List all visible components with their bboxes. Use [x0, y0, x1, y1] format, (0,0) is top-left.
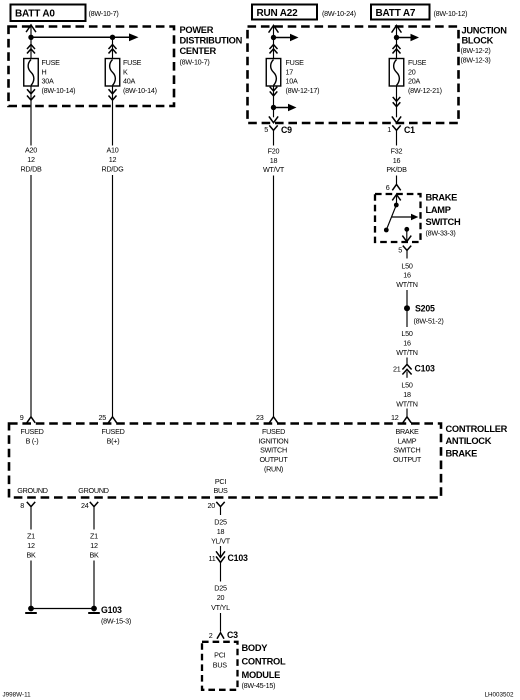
svg-text:C3: C3 — [227, 630, 238, 640]
svg-text:20: 20 — [208, 501, 216, 510]
svg-text:WT/TN: WT/TN — [396, 399, 418, 408]
brake lamp switch dashed box — [375, 194, 421, 242]
fuse 17 value labels — [286, 58, 320, 95]
wire label D25 18 YL/VT — [211, 518, 231, 546]
svg-text:12: 12 — [90, 541, 98, 550]
svg-text:12: 12 — [109, 155, 117, 164]
pin 9 label FUSED B(-) — [20, 427, 43, 445]
connector chevrons above fuse 20 — [393, 45, 400, 53]
node junction dot at fuse H feed — [28, 35, 33, 40]
connector pin 9 at CAB — [20, 413, 35, 423]
component box RUN A22 — [252, 5, 317, 20]
svg-text:(8W-51-2): (8W-51-2) — [414, 317, 444, 326]
svg-text:Z1: Z1 — [90, 532, 98, 541]
svg-text:L50: L50 — [401, 261, 412, 270]
svg-text:18: 18 — [403, 390, 411, 399]
svg-text:6: 6 — [386, 183, 390, 192]
svg-text:5: 5 — [398, 246, 402, 255]
junction block dashed box — [248, 27, 459, 124]
svg-text:D25: D25 — [214, 518, 227, 527]
svg-text:C1: C1 — [404, 125, 415, 135]
svg-text:PCI: PCI — [214, 650, 225, 659]
wire branch arrow right of fuse 17 feed — [274, 34, 299, 41]
svg-text:(8W-12-3): (8W-12-3) — [461, 56, 491, 65]
svg-text:(8W-12-17): (8W-12-17) — [286, 86, 320, 95]
ground G103 label — [101, 605, 131, 626]
switch contact node (top) — [394, 203, 399, 208]
svg-text:1: 1 — [387, 125, 391, 134]
svg-text:CENTER: CENTER — [180, 46, 217, 56]
svg-text:12: 12 — [27, 155, 35, 164]
fuse H — [24, 59, 39, 87]
svg-text:BODY: BODY — [242, 643, 269, 653]
svg-text:BK: BK — [89, 551, 99, 560]
svg-text:LAMP: LAMP — [398, 436, 417, 445]
wire L50 to splice S205 — [406, 290, 408, 308]
power distribution center dashed box — [9, 27, 175, 107]
svg-text:(8W-10-14): (8W-10-14) — [123, 86, 157, 95]
connector pin 6 at brake lamp switch — [386, 183, 401, 192]
connector C3 pin 2 at BCM — [209, 630, 238, 640]
wire label L50 16 WT/TN (lower) — [396, 329, 418, 357]
wire into connector C103 pin 21 — [406, 358, 408, 365]
svg-text:POWER: POWER — [180, 25, 214, 35]
body control module title — [242, 643, 286, 690]
svg-text:GROUND: GROUND — [17, 486, 48, 495]
node junction dot at fuse 17 feed — [271, 35, 276, 40]
connector pin 12 at CAB — [391, 413, 411, 423]
connector pin 24 below CAB — [81, 501, 98, 510]
svg-text:(8W-10-14): (8W-10-14) — [42, 86, 76, 95]
svg-text:8: 8 — [20, 501, 24, 510]
svg-text:DISTRIBUTION: DISTRIBUTION — [180, 36, 243, 46]
wire label A10 12 RD/DG — [102, 145, 125, 173]
svg-text:B(+): B(+) — [107, 436, 120, 445]
svg-text:LH003502: LH003502 — [484, 691, 514, 698]
wire down to BCM pin 2 — [220, 613, 222, 632]
pin 20 label PCI BUS — [213, 477, 227, 495]
svg-text:JUNCTION: JUNCTION — [462, 26, 508, 36]
svg-text:16: 16 — [403, 271, 411, 280]
controller antilock brake title — [446, 424, 508, 458]
svg-text:30A: 30A — [42, 77, 54, 86]
fuse K value labels — [123, 58, 157, 95]
brake lamp switch title — [426, 193, 461, 238]
component box BATT A7 — [371, 5, 430, 20]
svg-text:IGNITION: IGNITION — [259, 436, 289, 445]
svg-text:BATT A7: BATT A7 — [376, 8, 416, 19]
switch contact node (lower left) — [384, 228, 389, 233]
svg-text:(8W-10-7): (8W-10-7) — [180, 58, 210, 67]
fuse 20 value labels — [408, 58, 442, 95]
svg-text:FUSE: FUSE — [286, 58, 305, 67]
fuse 20 — [389, 59, 404, 87]
svg-text:9: 9 — [20, 413, 24, 422]
ground wire Z1 from pin 24 — [93, 507, 95, 530]
connector chevrons above fuse H — [28, 45, 35, 53]
svg-text:F20: F20 — [268, 146, 280, 155]
svg-text:FUSED: FUSED — [262, 427, 285, 436]
svg-text:ANTILOCK: ANTILOCK — [446, 436, 492, 446]
svg-text:24: 24 — [81, 501, 89, 510]
svg-text:BLOCK: BLOCK — [462, 35, 494, 45]
svg-text:BRAKE: BRAKE — [426, 193, 458, 203]
svg-text:WT/TN: WT/TN — [396, 280, 418, 289]
svg-text:A10: A10 — [106, 145, 118, 154]
pin 23 label FUSED IGNITION SWITCH OUTPUT (RUN) — [259, 427, 289, 474]
svg-text:G103: G103 — [101, 605, 122, 615]
svg-text:A20: A20 — [25, 145, 37, 154]
svg-text:MODULE: MODULE — [242, 670, 281, 680]
svg-text:SWITCH: SWITCH — [260, 446, 287, 455]
svg-text:GROUND: GROUND — [78, 486, 109, 495]
svg-text:2: 2 — [209, 631, 213, 640]
connector pin 25 at CAB — [99, 413, 117, 423]
svg-text:C103: C103 — [415, 364, 436, 374]
svg-text:J998W-11: J998W-11 — [3, 691, 32, 698]
wire label L50 18 WT/TN — [396, 381, 418, 409]
svg-text:RD/DG: RD/DG — [102, 164, 125, 173]
svg-text:10A: 10A — [286, 77, 298, 86]
svg-text:16: 16 — [403, 338, 411, 347]
svg-text:OUTPUT: OUTPUT — [393, 455, 422, 464]
svg-text:D25: D25 — [214, 584, 227, 593]
svg-text:21: 21 — [393, 365, 401, 374]
switch blade — [386, 205, 396, 230]
svg-text:(RUN): (RUN) — [264, 465, 283, 474]
wire down arrow at junction block exit — [269, 117, 277, 123]
wire below fuse 17 with chevrons — [270, 86, 277, 117]
connector chevrons above fuse K — [109, 40, 116, 59]
svg-text:20A: 20A — [408, 77, 420, 86]
svg-text:PK/DB: PK/DB — [386, 165, 407, 174]
power distribution center title — [180, 25, 243, 67]
svg-text:WT/VT: WT/VT — [263, 165, 285, 174]
svg-text:23: 23 — [256, 413, 264, 422]
fuse 17 — [266, 59, 281, 87]
connector C103 pin 21 — [393, 364, 435, 378]
connector pin 20 below CAB — [208, 501, 225, 510]
svg-text:FUSED: FUSED — [101, 427, 124, 436]
svg-text:BUS: BUS — [213, 486, 227, 495]
svg-text:(8W-10-12): (8W-10-12) — [434, 9, 468, 18]
switch input wire with up arrow inside box — [393, 195, 401, 206]
ground symbol right at G103 — [88, 606, 100, 613]
wire from RUN A22 into junction block (up arrow) — [269, 26, 278, 59]
wire Z1 left down to ground — [30, 561, 32, 609]
svg-text:(8W-10-7): (8W-10-7) — [89, 9, 119, 18]
wire label A20 12 RD/DB — [20, 145, 42, 173]
wire into connector C103 pin 11 — [220, 546, 222, 557]
wire label L50 16 WT/TN (upper) — [396, 261, 418, 289]
svg-text:(8W-12-2): (8W-12-2) — [461, 46, 491, 55]
wire A20 down to CAB pin 9 — [30, 175, 32, 417]
component box BATT A0 — [11, 5, 86, 22]
svg-text:PCI: PCI — [215, 477, 226, 486]
svg-text:FUSE: FUSE — [123, 58, 142, 67]
wire branch arrow right of fuse 20 feed — [397, 34, 420, 41]
svg-text:L50: L50 — [401, 329, 412, 338]
node junction dot above C9 — [271, 105, 276, 110]
wire A10 down to CAB pin 25 — [112, 175, 114, 417]
svg-text:17: 17 — [286, 67, 294, 76]
wire F32 down to brake lamp switch pin 6 — [396, 176, 398, 185]
svg-text:BRAKE: BRAKE — [446, 448, 478, 458]
svg-text:(8W-12-21): (8W-12-21) — [408, 86, 442, 95]
svg-text:BUS: BUS — [213, 660, 227, 669]
switch actuation arrow — [392, 214, 419, 221]
connector pin 23 at CAB — [256, 413, 278, 423]
connector C103 pin 11 — [209, 552, 249, 563]
body control module dashed box — [202, 642, 238, 690]
svg-text:18: 18 — [270, 156, 278, 165]
wire below fuse 20 with chevrons — [393, 86, 400, 117]
wire F20 down to CAB pin 23 — [273, 176, 275, 417]
wire L50 down to CAB pin 12 — [406, 409, 408, 417]
svg-text:WT/TN: WT/TN — [396, 348, 418, 357]
connector pin 8 below CAB — [20, 501, 35, 510]
svg-text:F32: F32 — [391, 146, 403, 155]
svg-text:18: 18 — [217, 527, 225, 536]
svg-text:40A: 40A — [123, 77, 135, 86]
wire from BATT A7 into junction block (up arrow) — [392, 26, 401, 59]
junction block title — [461, 26, 508, 65]
pin 12 label BRAKE LAMP SWITCH OUTPUT — [393, 427, 422, 464]
svg-text:5: 5 — [264, 125, 268, 134]
svg-text:K: K — [123, 67, 128, 76]
svg-text:(8W-15-3): (8W-15-3) — [101, 617, 131, 626]
pin 25 label FUSED B(+) — [101, 427, 124, 445]
svg-text:(8W-33-3): (8W-33-3) — [426, 229, 456, 238]
wire from BATT A0 into PDC (up arrow) — [27, 25, 36, 59]
svg-text:CONTROL: CONTROL — [242, 656, 286, 666]
wire below fuse K with chevrons out of PDC — [109, 86, 116, 146]
wire down arrow at junction block exit to C1 — [392, 117, 400, 123]
node junction dot at fuse 20 feed — [394, 35, 399, 40]
svg-text:SWITCH: SWITCH — [426, 217, 461, 227]
svg-text:H: H — [42, 67, 47, 76]
connector pin 5 below brake lamp switch — [398, 246, 411, 259]
svg-text:11: 11 — [209, 554, 216, 563]
node junction dot at fuse K feed — [110, 35, 115, 40]
svg-text:B (-): B (-) — [26, 436, 39, 445]
svg-text:25: 25 — [99, 413, 107, 422]
svg-text:CONTROLLER: CONTROLLER — [446, 424, 508, 434]
wire below S205 — [406, 308, 408, 327]
svg-text:RUN A22: RUN A22 — [257, 8, 299, 19]
controller antilock brake dashed box — [9, 424, 441, 498]
ground symbol left at G103 — [25, 606, 37, 613]
connector chevrons above fuse 17 — [270, 45, 277, 53]
wire label Z1 12 BK (right) — [89, 532, 99, 560]
connector C9 pin 5 — [264, 125, 292, 145]
svg-text:C9: C9 — [281, 125, 292, 135]
svg-text:BK: BK — [26, 551, 36, 560]
wire below fuse H with chevrons out of PDC — [28, 86, 35, 146]
svg-text:12: 12 — [27, 541, 35, 550]
svg-text:VT/YL: VT/YL — [211, 603, 230, 612]
svg-text:16: 16 — [393, 156, 401, 165]
svg-text:FUSE: FUSE — [408, 58, 427, 67]
svg-text:20: 20 — [217, 593, 225, 602]
wire label D25 20 VT/YL — [211, 584, 230, 612]
svg-text:LAMP: LAMP — [426, 205, 451, 215]
body control module internal label PCI BUS — [213, 650, 227, 669]
svg-text:YL/VT: YL/VT — [211, 536, 231, 545]
fuse H value labels — [42, 58, 76, 95]
wire label Z1 12 BK (left) — [26, 532, 36, 560]
svg-text:C103: C103 — [228, 553, 249, 563]
svg-text:L50: L50 — [401, 381, 412, 390]
connector C1 pin 1 — [387, 125, 415, 145]
svg-text:(8W-10-24): (8W-10-24) — [322, 9, 356, 18]
wire label F20 18 WT/VT — [263, 146, 285, 174]
svg-text:SWITCH: SWITCH — [394, 446, 421, 455]
svg-text:(8W-45-15): (8W-45-15) — [242, 681, 276, 690]
svg-text:FUSED: FUSED — [20, 427, 43, 436]
fuse K — [105, 59, 120, 87]
wire below C103 pin 11 — [220, 563, 222, 582]
svg-text:BRAKE: BRAKE — [395, 427, 419, 436]
svg-text:S205: S205 — [415, 304, 435, 314]
wire Z1 right down to ground — [93, 561, 95, 609]
svg-text:12: 12 — [391, 413, 399, 422]
PCI bus wire from pin 20 — [220, 507, 222, 515]
wire branch arrow right above C9 — [274, 104, 297, 111]
svg-text:Z1: Z1 — [27, 532, 35, 541]
wire bus in PDC with right arrow — [31, 33, 139, 41]
ground wire Z1 from pin 8 — [30, 507, 32, 530]
svg-text:OUTPUT: OUTPUT — [259, 455, 288, 464]
svg-text:20: 20 — [408, 67, 416, 76]
switch output wire with down arrow — [403, 229, 411, 241]
svg-text:BATT A0: BATT A0 — [15, 8, 55, 19]
svg-text:RD/DB: RD/DB — [20, 164, 42, 173]
svg-text:FUSE: FUSE — [42, 58, 61, 67]
splice S205 — [404, 304, 443, 326]
switch output contact node — [404, 227, 409, 232]
wire linking grounds — [31, 608, 94, 610]
wire label F32 16 PK/DB — [386, 146, 407, 174]
